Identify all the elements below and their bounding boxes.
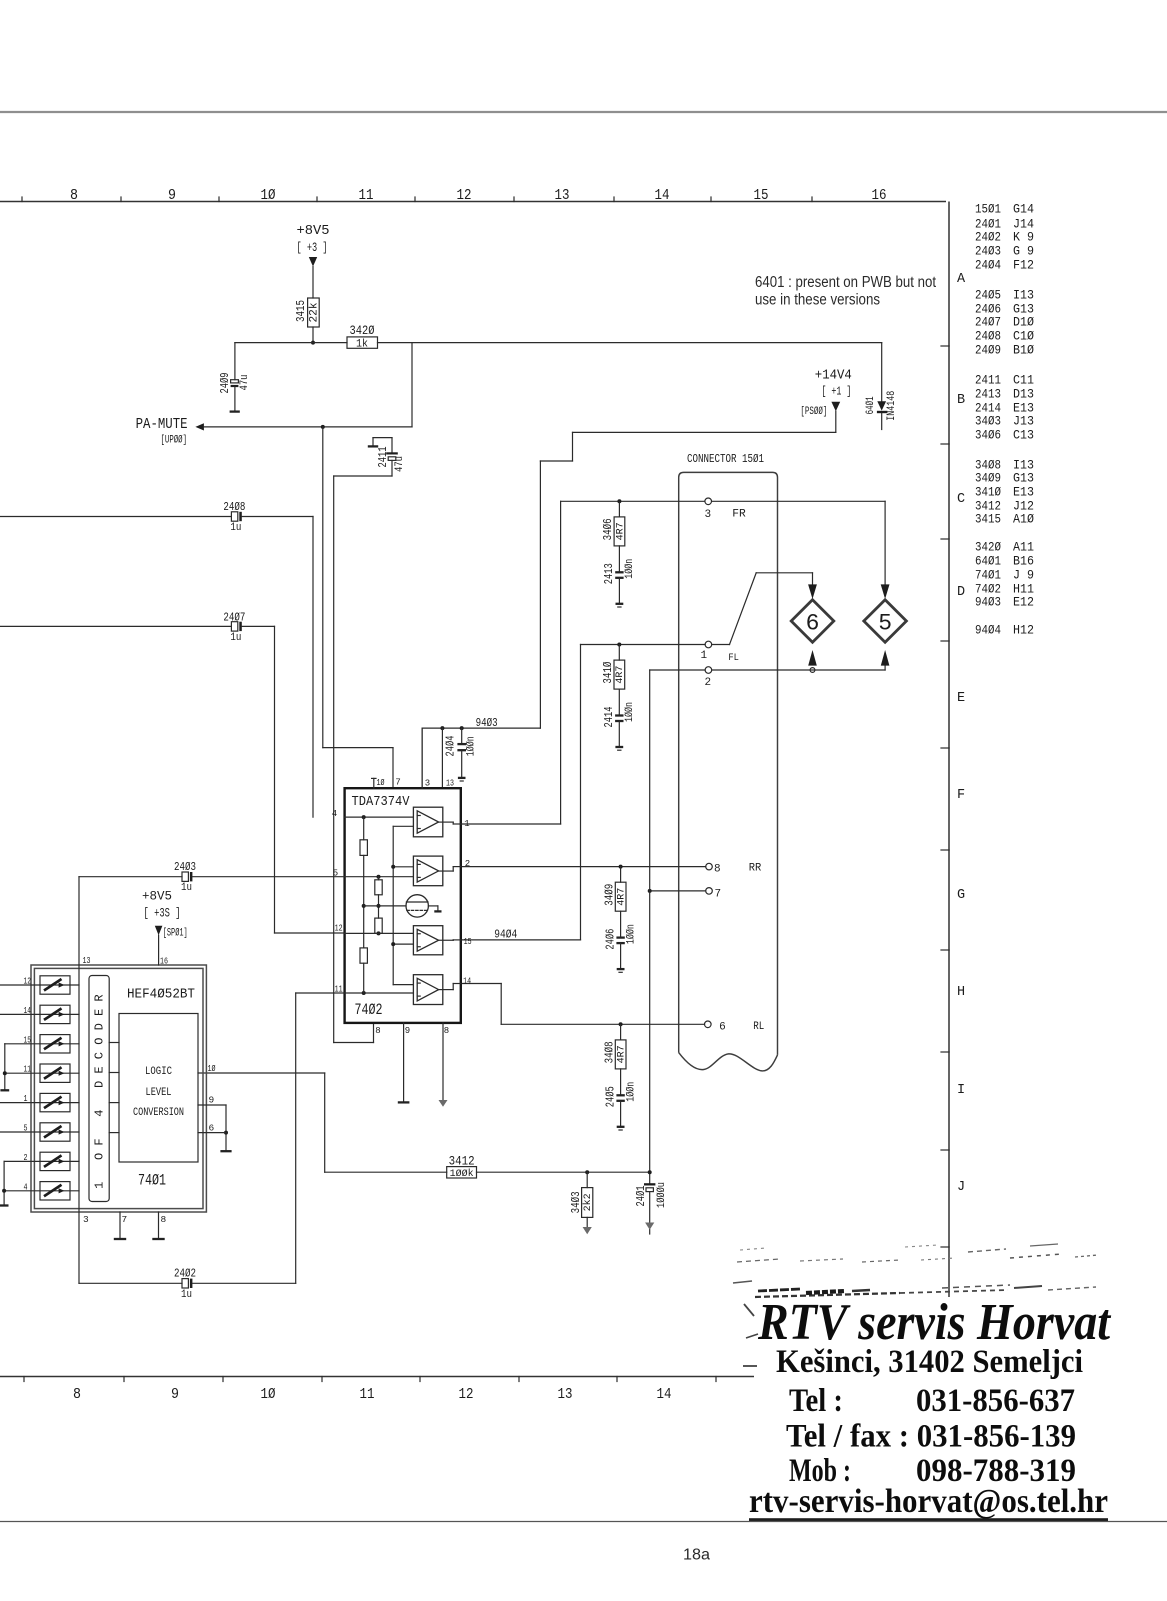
svg-text:3: 3: [425, 779, 430, 789]
svg-text:24Ø5: 24Ø5: [603, 1086, 617, 1107]
svg-text:1ØØn: 1ØØn: [625, 1082, 637, 1102]
svg-text:+14V4: +14V4: [815, 369, 852, 384]
svg-text:G 9: G 9: [1013, 244, 1034, 259]
svg-text:94Ø3: 94Ø3: [975, 595, 1001, 610]
svg-text:4R7: 4R7: [615, 1045, 627, 1063]
svg-text:1Ø: 1Ø: [261, 187, 276, 204]
svg-text:6401 : present on PWB but not: 6401 : present on PWB but not: [755, 274, 937, 291]
svg-text:3: 3: [83, 1214, 89, 1225]
svg-text:34Ø6: 34Ø6: [601, 518, 615, 540]
svg-text:12: 12: [24, 976, 32, 987]
svg-text:I13: I13: [1013, 288, 1034, 303]
svg-text:8: 8: [714, 864, 721, 876]
svg-text:B1Ø: B1Ø: [1013, 343, 1034, 358]
svg-text:5: 5: [24, 1123, 28, 1134]
svg-text:H12: H12: [1013, 623, 1034, 638]
svg-text:2: 2: [465, 859, 470, 869]
svg-text:13: 13: [83, 955, 91, 966]
svg-text:74Ø1: 74Ø1: [975, 568, 1001, 583]
svg-text:[UPØØ]: [UPØØ]: [161, 435, 188, 447]
svg-text:1ØØn: 1ØØn: [624, 559, 636, 579]
svg-text:5: 5: [878, 611, 892, 637]
svg-text:D: D: [957, 585, 965, 600]
svg-text:342Ø: 342Ø: [350, 324, 375, 338]
svg-text:16: 16: [160, 956, 168, 967]
svg-text:14: 14: [655, 187, 670, 204]
svg-text:J 9: J 9: [1013, 568, 1034, 583]
svg-text:1ØØØu: 1ØØØu: [656, 1182, 668, 1208]
svg-text:6: 6: [209, 1123, 215, 1134]
svg-text:9: 9: [209, 1095, 215, 1106]
svg-text:4R7: 4R7: [614, 522, 626, 540]
svg-text:12: 12: [335, 924, 343, 934]
svg-text:1: 1: [701, 650, 708, 662]
svg-text:24Ø3: 24Ø3: [975, 244, 1001, 259]
svg-text:F: F: [957, 788, 965, 803]
svg-text:3: 3: [705, 509, 712, 521]
svg-text:CONNECTOR 15Ø1: CONNECTOR 15Ø1: [687, 453, 764, 466]
svg-text:C: C: [957, 492, 965, 507]
svg-text:24Ø9: 24Ø9: [975, 343, 1001, 358]
svg-text:34Ø3: 34Ø3: [975, 414, 1001, 429]
svg-text:A1Ø: A1Ø: [1013, 512, 1034, 527]
svg-text:64Ø1: 64Ø1: [865, 396, 877, 414]
svg-text:24Ø2: 24Ø2: [174, 1266, 196, 1280]
svg-text:[ +3 ]: [ +3 ]: [297, 241, 328, 255]
svg-text:24Ø9: 24Ø9: [218, 373, 232, 394]
svg-text:1: 1: [24, 1093, 28, 1104]
svg-text:4R7: 4R7: [614, 666, 626, 684]
svg-text:1k: 1k: [356, 338, 368, 350]
svg-text:24Ø4: 24Ø4: [975, 258, 1001, 273]
svg-text:CONVERSION: CONVERSION: [133, 1107, 184, 1119]
svg-text:8: 8: [444, 1026, 449, 1036]
svg-text:C11: C11: [1013, 373, 1034, 388]
svg-text:2411: 2411: [376, 447, 390, 468]
svg-text:24Ø1: 24Ø1: [634, 1186, 648, 1207]
svg-text:8: 8: [70, 187, 78, 204]
svg-text:RL: RL: [753, 1021, 764, 1033]
svg-text:031-856-637: 031-856-637: [916, 1383, 1075, 1419]
svg-text:2413: 2413: [975, 387, 1001, 402]
svg-text:8: 8: [161, 1214, 167, 1225]
svg-text:LOGIC: LOGIC: [145, 1066, 172, 1078]
svg-text:G: G: [957, 888, 965, 903]
svg-text:LEVEL: LEVEL: [146, 1087, 172, 1099]
svg-text:342Ø: 342Ø: [975, 540, 1001, 555]
svg-text:J: J: [957, 1180, 965, 1195]
svg-text:94Ø4: 94Ø4: [975, 623, 1001, 638]
svg-text:15: 15: [754, 187, 769, 204]
svg-text:1u: 1u: [230, 632, 241, 644]
svg-text:I: I: [957, 1083, 965, 1098]
svg-text:Kešinci, 31402 Semeljci: Kešinci, 31402 Semeljci: [776, 1344, 1083, 1380]
svg-text:[ +1 ]: [ +1 ]: [821, 384, 851, 398]
svg-text:PA-MUTE: PA-MUTE: [136, 416, 188, 433]
svg-text:D1Ø: D1Ø: [1013, 315, 1034, 330]
svg-text:H: H: [957, 985, 965, 1000]
svg-text:+8V5: +8V5: [142, 888, 172, 903]
svg-text:1 OF 4 DECODER: 1 OF 4 DECODER: [93, 987, 107, 1189]
svg-text:G14: G14: [1013, 202, 1034, 217]
svg-text:2: 2: [24, 1152, 28, 1163]
svg-text:1Ø: 1Ø: [261, 1386, 276, 1403]
svg-text:11: 11: [24, 1064, 32, 1075]
svg-text:1ØØn: 1ØØn: [466, 736, 478, 756]
svg-text:2: 2: [705, 677, 712, 689]
svg-text:14: 14: [24, 1005, 32, 1016]
svg-text:RTV servis Horvat: RTV servis Horvat: [757, 1294, 1111, 1351]
svg-text:47u: 47u: [394, 456, 406, 472]
svg-text:B: B: [957, 393, 965, 408]
svg-text:FR: FR: [732, 509, 746, 521]
svg-text:9: 9: [168, 187, 176, 204]
svg-text:7: 7: [715, 888, 722, 900]
svg-text:341Ø: 341Ø: [975, 485, 1001, 500]
svg-text:TDA7374V: TDA7374V: [352, 794, 411, 810]
svg-text:E13: E13: [1013, 485, 1034, 500]
svg-text:3415: 3415: [975, 512, 1001, 527]
svg-text:34Ø3: 34Ø3: [569, 1191, 583, 1213]
svg-text:rtv-servis-horvat@os.tel.hr: rtv-servis-horvat@os.tel.hr: [749, 1483, 1108, 1520]
svg-text:[ +3S ]: [ +3S ]: [144, 905, 181, 920]
svg-text:24Ø8: 24Ø8: [223, 500, 245, 514]
svg-text:94Ø3: 94Ø3: [476, 716, 498, 730]
svg-text:15Ø1: 15Ø1: [975, 202, 1001, 217]
svg-text:13: 13: [446, 778, 454, 788]
svg-text:13: 13: [555, 187, 570, 204]
svg-text:11: 11: [359, 187, 374, 204]
svg-text:18a: 18a: [683, 1547, 710, 1564]
svg-text:24Ø8: 24Ø8: [975, 329, 1001, 344]
svg-text:14: 14: [657, 1386, 672, 1403]
svg-text:C1Ø: C1Ø: [1013, 329, 1034, 344]
svg-text:9: 9: [171, 1386, 179, 1403]
svg-text:24Ø2: 24Ø2: [975, 230, 1001, 245]
svg-text:1ØØn: 1ØØn: [624, 702, 636, 722]
svg-text:E12: E12: [1013, 595, 1034, 610]
svg-text:1u: 1u: [181, 882, 192, 894]
svg-text:2413: 2413: [602, 563, 616, 584]
svg-text:74Ø2: 74Ø2: [355, 1001, 383, 1019]
svg-text:12: 12: [457, 187, 472, 204]
svg-text:3412: 3412: [449, 1154, 475, 1168]
svg-text:24Ø7: 24Ø7: [975, 315, 1001, 330]
svg-text:4: 4: [24, 1181, 28, 1192]
svg-text:J13: J13: [1013, 414, 1034, 429]
svg-text:1Ø: 1Ø: [377, 778, 385, 788]
svg-text:34Ø8: 34Ø8: [602, 1041, 616, 1063]
svg-text:94Ø4: 94Ø4: [494, 928, 517, 942]
svg-text:B16: B16: [1013, 554, 1034, 569]
svg-text:8: 8: [73, 1386, 81, 1403]
svg-text:12: 12: [459, 1386, 474, 1403]
svg-text:2411: 2411: [975, 373, 1001, 388]
svg-text:14: 14: [463, 977, 471, 987]
svg-text:G13: G13: [1013, 471, 1034, 486]
svg-text:7: 7: [122, 1214, 128, 1225]
svg-text:13: 13: [558, 1386, 573, 1403]
svg-text:34Ø9: 34Ø9: [975, 471, 1001, 486]
svg-text:Tel / fax : 031-856-139: Tel / fax : 031-856-139: [786, 1419, 1076, 1455]
svg-text:1u: 1u: [181, 1289, 192, 1301]
svg-text:15: 15: [464, 937, 472, 947]
svg-text:7: 7: [395, 778, 400, 788]
svg-text:6: 6: [719, 1022, 726, 1034]
svg-text:11: 11: [360, 1386, 375, 1403]
svg-text:2k2: 2k2: [582, 1193, 594, 1211]
svg-text:D13: D13: [1013, 387, 1034, 402]
svg-text:2414: 2414: [602, 707, 616, 728]
svg-text:F12: F12: [1013, 258, 1034, 273]
svg-text:15: 15: [24, 1034, 32, 1045]
svg-text:1ØØk: 1ØØk: [450, 1168, 474, 1180]
svg-text:+8V5: +8V5: [297, 223, 330, 239]
svg-text:341Ø: 341Ø: [601, 662, 615, 684]
svg-text:Tel :: Tel :: [789, 1383, 843, 1419]
svg-text:1u: 1u: [230, 522, 241, 534]
svg-text:6: 6: [806, 611, 820, 637]
svg-text:HEF4Ø52BT: HEF4Ø52BT: [127, 987, 195, 1003]
svg-text:K 9: K 9: [1013, 230, 1034, 245]
svg-text:FL: FL: [728, 653, 739, 664]
svg-text:1ØØn: 1ØØn: [625, 924, 637, 944]
svg-text:use in these versions: use in these versions: [755, 292, 880, 309]
svg-text:34Ø9: 34Ø9: [602, 884, 616, 906]
svg-text:[SPØ1]: [SPØ1]: [163, 928, 188, 940]
svg-text:1Ø: 1Ø: [208, 1063, 216, 1074]
svg-text:A: A: [957, 272, 966, 287]
svg-text:24Ø4: 24Ø4: [444, 736, 458, 757]
svg-text:34Ø6: 34Ø6: [975, 428, 1001, 443]
svg-text:4: 4: [332, 809, 337, 819]
svg-text:64Ø1: 64Ø1: [975, 554, 1001, 569]
svg-text:24Ø3: 24Ø3: [174, 860, 196, 874]
svg-text:4R7: 4R7: [615, 888, 627, 906]
svg-text:16: 16: [872, 187, 887, 204]
svg-text:RR: RR: [749, 863, 762, 875]
svg-text:22k: 22k: [308, 302, 320, 322]
svg-text:24Ø7: 24Ø7: [223, 610, 245, 624]
svg-text:3415: 3415: [294, 300, 308, 322]
svg-text:47u: 47u: [239, 375, 251, 391]
svg-text:8: 8: [375, 1026, 380, 1036]
svg-text:[PSØØ]: [PSØØ]: [800, 406, 827, 418]
svg-text:74Ø1: 74Ø1: [138, 1172, 166, 1190]
svg-text:24Ø5: 24Ø5: [975, 288, 1001, 303]
svg-text:A11: A11: [1013, 540, 1034, 555]
svg-text:E: E: [957, 691, 965, 706]
svg-text:C13: C13: [1013, 428, 1034, 443]
svg-text:24Ø6: 24Ø6: [603, 929, 617, 950]
svg-text:9: 9: [405, 1026, 410, 1036]
svg-text:IN4148: IN4148: [886, 391, 898, 421]
